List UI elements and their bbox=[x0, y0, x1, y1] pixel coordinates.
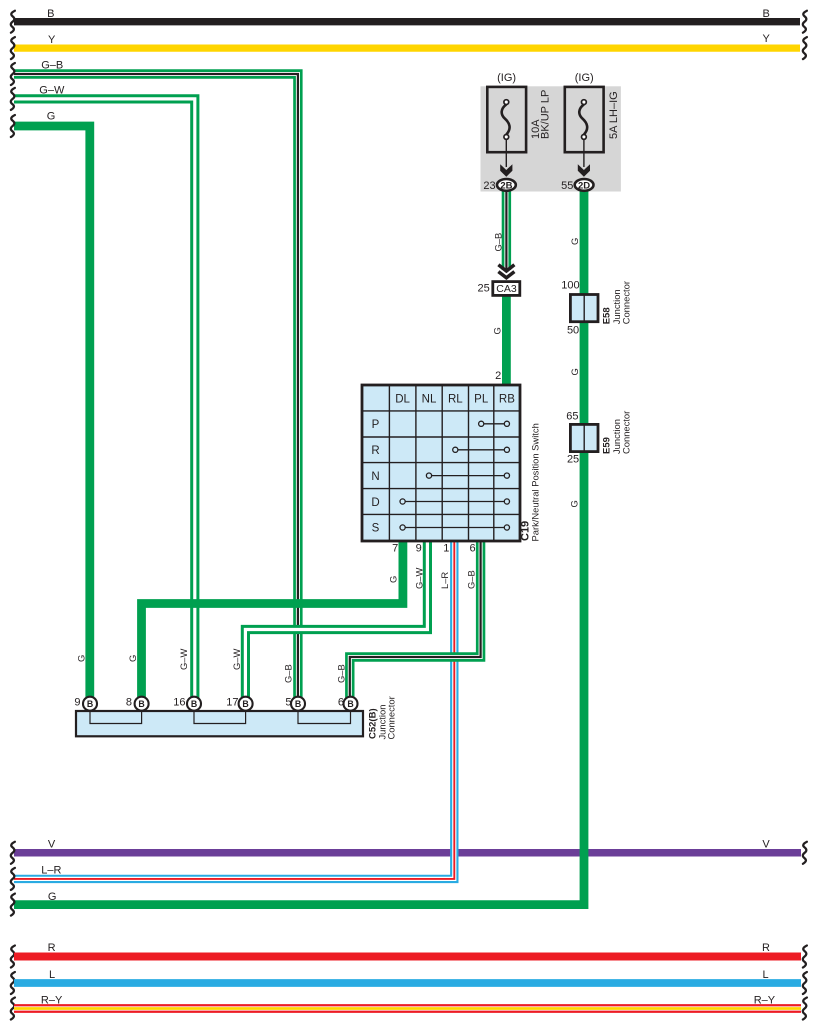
svg-text:G: G bbox=[127, 655, 138, 662]
wire break (G-W bus, left) bbox=[11, 88, 15, 110]
C52 terminal circles B bbox=[83, 697, 358, 711]
wire break (G bottom bus, left) bbox=[11, 894, 15, 916]
wire L-R (blue/red from switch pin 1 down to left edge) bbox=[14, 537, 454, 879]
svg-text:NL: NL bbox=[422, 393, 437, 405]
wire G-W (switch pin 9 to C52 pin 17) bbox=[245, 537, 427, 703]
svg-text:G: G bbox=[569, 368, 580, 375]
svg-text:(IG): (IG) bbox=[575, 72, 594, 84]
wire G (from fuse 2D down through E58/E59 to bottom-left edge) bbox=[14, 186, 584, 905]
svg-text:R: R bbox=[371, 445, 379, 457]
svg-text:N: N bbox=[371, 471, 379, 483]
contact row N bbox=[429, 475, 507, 477]
wire break (L-R bus, left) bbox=[11, 868, 15, 890]
svg-text:B: B bbox=[47, 8, 54, 20]
contact row P bbox=[481, 423, 507, 425]
svg-text:2D: 2D bbox=[578, 180, 590, 191]
svg-text:DL: DL bbox=[395, 393, 410, 405]
svg-text:B: B bbox=[347, 699, 353, 709]
svg-text:5A LH–IG: 5A LH–IG bbox=[608, 91, 620, 139]
svg-text:9: 9 bbox=[74, 697, 80, 709]
svg-text:Connector: Connector bbox=[386, 696, 397, 739]
svg-text:RB: RB bbox=[499, 393, 515, 405]
svg-text:R: R bbox=[48, 942, 56, 954]
svg-text:G–W: G–W bbox=[178, 648, 189, 670]
wire break (G-B bus, left) bbox=[11, 63, 15, 85]
svg-text:2B: 2B bbox=[500, 180, 512, 191]
wire B (black bus, top) bbox=[14, 18, 800, 25]
wire R (red bus, bottom) bbox=[14, 953, 801, 961]
wire break (R bus, left) bbox=[11, 946, 15, 968]
svg-text:17: 17 bbox=[226, 697, 238, 709]
connector arrow CA3 (double chevron) bbox=[498, 265, 514, 278]
svg-text:Connector: Connector bbox=[620, 281, 631, 324]
wire L (blue bus, bottom) bbox=[14, 979, 801, 987]
svg-text:G: G bbox=[48, 891, 57, 903]
svg-text:D: D bbox=[371, 497, 379, 509]
svg-text:1: 1 bbox=[443, 542, 449, 554]
svg-text:CA3: CA3 bbox=[496, 283, 517, 295]
svg-text:65: 65 bbox=[566, 411, 578, 423]
svg-text:G–B: G–B bbox=[465, 570, 476, 589]
junction connector E58 box bbox=[570, 295, 598, 322]
svg-text:G–B: G–B bbox=[336, 664, 347, 683]
contact row R bbox=[455, 449, 507, 451]
svg-text:Connector: Connector bbox=[620, 411, 631, 454]
svg-text:(IG): (IG) bbox=[497, 72, 516, 84]
svg-text:2: 2 bbox=[495, 370, 501, 382]
wire G-B (switch pin 6 to C52 pin 6) bbox=[350, 537, 481, 703]
svg-text:6: 6 bbox=[469, 542, 475, 554]
svg-text:25: 25 bbox=[567, 454, 579, 466]
svg-text:Park/Neutral Position Switch: Park/Neutral Position Switch bbox=[530, 423, 541, 541]
wire break (R bus, right) bbox=[803, 946, 807, 968]
switch C19 Park/Neutral Position Switch (table) bbox=[362, 385, 520, 541]
svg-text:Y: Y bbox=[763, 33, 771, 45]
junction connector E59 box bbox=[570, 424, 598, 451]
wire G (solid green bus, turns down to C52 pin 9) bbox=[14, 126, 90, 703]
svg-text:G–W: G–W bbox=[39, 85, 65, 97]
svg-text:B: B bbox=[242, 699, 248, 709]
svg-text:8: 8 bbox=[126, 697, 132, 709]
svg-text:G: G bbox=[491, 327, 502, 334]
svg-text:23: 23 bbox=[483, 180, 495, 192]
wire G-B (green/black bus, turns down to C52 pin 5) bbox=[14, 74, 298, 703]
wire break (L bus, left) bbox=[11, 972, 15, 994]
svg-text:G: G bbox=[76, 655, 87, 662]
svg-text:50: 50 bbox=[567, 324, 579, 336]
svg-text:RL: RL bbox=[448, 393, 463, 405]
svg-text:7: 7 bbox=[392, 542, 398, 554]
svg-text:G–W: G–W bbox=[231, 648, 242, 670]
svg-text:P: P bbox=[372, 419, 380, 431]
svg-text:6: 6 bbox=[338, 697, 344, 709]
wire break (B bus, left) bbox=[11, 11, 15, 33]
svg-text:L: L bbox=[762, 969, 768, 981]
svg-text:L–R: L–R bbox=[439, 572, 450, 589]
wire break (Y bus, right) bbox=[803, 37, 807, 59]
svg-text:55: 55 bbox=[561, 180, 573, 192]
svg-text:G–B: G–B bbox=[283, 664, 294, 683]
svg-text:B: B bbox=[87, 699, 93, 709]
svg-text:G: G bbox=[569, 238, 580, 245]
wire break (R-Y bus, left) bbox=[11, 998, 15, 1020]
svg-text:L–R: L–R bbox=[41, 865, 61, 877]
svg-text:G–B: G–B bbox=[41, 60, 63, 72]
svg-text:B: B bbox=[295, 699, 301, 709]
wire break (Y bus, left) bbox=[11, 37, 15, 59]
wire break (V bus, right) bbox=[803, 842, 807, 864]
svg-text:B: B bbox=[138, 699, 144, 709]
wire G-B (fuse 2B down to CA3 arrow) bbox=[502, 186, 511, 270]
wire G-W (green/white bus, turns down to C52 pin 16) bbox=[14, 99, 195, 703]
svg-text:L: L bbox=[49, 969, 55, 981]
svg-text:BK/UP LP: BK/UP LP bbox=[539, 90, 551, 139]
connector box CA3 bbox=[493, 282, 520, 296]
svg-text:S: S bbox=[372, 523, 380, 535]
contact row S bbox=[403, 527, 507, 529]
svg-text:G–W: G–W bbox=[413, 567, 424, 589]
fuse block (gray box) bbox=[481, 86, 621, 191]
svg-text:R–Y: R–Y bbox=[754, 995, 776, 1007]
svg-text:R–Y: R–Y bbox=[41, 995, 63, 1007]
svg-text:R: R bbox=[762, 942, 770, 954]
wire break (L bus, right) bbox=[803, 972, 807, 994]
svg-text:B: B bbox=[191, 699, 197, 709]
svg-text:V: V bbox=[48, 839, 56, 851]
svg-text:5: 5 bbox=[285, 697, 291, 709]
svg-text:B: B bbox=[763, 8, 770, 20]
contact row D bbox=[403, 501, 507, 503]
svg-text:G: G bbox=[47, 111, 56, 123]
wire Y (yellow bus) bbox=[14, 44, 800, 51]
svg-text:25: 25 bbox=[478, 282, 490, 294]
wire R-Y (red/yellow bus, bottom) bbox=[14, 1004, 801, 1013]
wire break (V bus, left) bbox=[11, 842, 15, 864]
svg-text:Y: Y bbox=[48, 34, 56, 46]
wire V (violet bus) bbox=[14, 849, 801, 857]
fuse F2 5A LH-IG bbox=[565, 87, 604, 177]
wire G (switch pin 7 to C52 pin 8) bbox=[142, 537, 403, 703]
connector oval 2B bbox=[497, 179, 516, 191]
svg-text:9: 9 bbox=[416, 542, 422, 554]
svg-text:G: G bbox=[569, 500, 580, 507]
svg-text:G: G bbox=[388, 576, 399, 583]
wire break (R-Y bus, right) bbox=[803, 998, 807, 1020]
wire G (CA3 to switch pin 2) bbox=[502, 294, 511, 390]
svg-text:V: V bbox=[762, 839, 770, 851]
svg-text:G–B: G–B bbox=[492, 233, 503, 252]
wire break (G bus, left) bbox=[11, 115, 15, 137]
fuse F1 10A BK/UP LP bbox=[487, 87, 526, 177]
svg-text:PL: PL bbox=[474, 393, 489, 405]
svg-text:100: 100 bbox=[561, 280, 579, 292]
wire break (B bus, right) bbox=[803, 11, 807, 33]
junction connector C52(B) box bbox=[76, 711, 363, 736]
connector oval 2D bbox=[575, 179, 594, 191]
svg-text:16: 16 bbox=[173, 697, 185, 709]
